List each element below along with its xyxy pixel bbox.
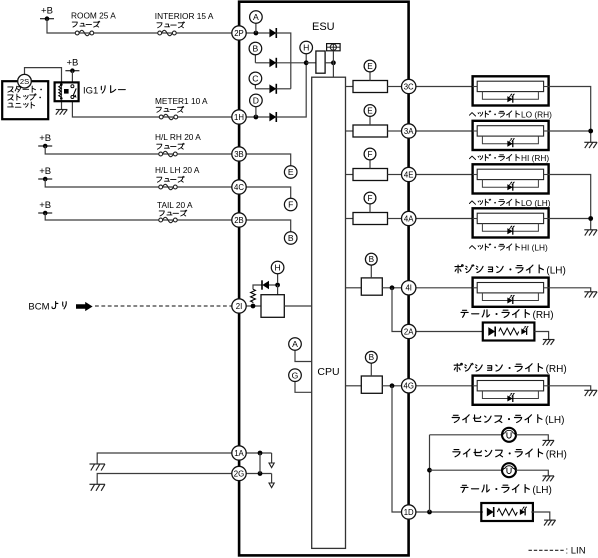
svg-text:+B: +B [39, 133, 51, 144]
svg-text:3B: 3B [234, 150, 244, 159]
svg-text:2P: 2P [234, 29, 244, 38]
svg-text:INTERIOR 15 A: INTERIOR 15 A [155, 11, 214, 21]
svg-text:H/L LH 20 A: H/L LH 20 A [155, 165, 200, 175]
svg-text:3C: 3C [404, 82, 414, 91]
svg-text:METER1 10 A: METER1 10 A [155, 96, 208, 106]
svg-text:2B: 2B [234, 216, 244, 225]
svg-text:F: F [288, 200, 293, 210]
svg-text:BCM: BCM [28, 301, 49, 312]
svg-text:F: F [367, 194, 372, 203]
svg-text:(RH): (RH) [546, 449, 567, 460]
svg-text:LO (RH): LO (RH) [521, 110, 552, 120]
svg-text:1D: 1D [404, 508, 414, 517]
svg-text:H: H [303, 43, 309, 53]
svg-text:+B: +B [39, 200, 51, 211]
svg-text:: LIN: : LIN [566, 545, 586, 556]
svg-text:+B: +B [41, 6, 53, 17]
svg-text:ESU: ESU [312, 21, 335, 33]
svg-text:3A: 3A [404, 127, 414, 136]
svg-text:A: A [253, 12, 259, 22]
svg-text:4G: 4G [403, 382, 413, 391]
svg-text:4I: 4I [405, 284, 412, 293]
svg-text:D: D [253, 96, 259, 106]
svg-text:B: B [253, 44, 259, 54]
svg-text:ROOM 25 A: ROOM 25 A [71, 10, 116, 20]
svg-text:E: E [288, 167, 294, 177]
svg-text:LO (LH): LO (LH) [521, 198, 551, 208]
svg-text:HI (RH): HI (RH) [521, 153, 549, 163]
svg-text:B: B [369, 353, 375, 362]
svg-text:(RH): (RH) [533, 310, 554, 321]
svg-text:B: B [288, 233, 294, 243]
svg-text:2G: 2G [234, 469, 244, 478]
svg-text:1H: 1H [234, 113, 244, 122]
svg-text:B: B [369, 255, 375, 264]
svg-text:4E: 4E [404, 170, 414, 179]
svg-text:2I: 2I [236, 302, 243, 311]
svg-text:H: H [274, 263, 280, 273]
svg-text:IG1: IG1 [83, 86, 98, 97]
svg-text:C: C [252, 74, 258, 84]
svg-text:4C: 4C [234, 183, 244, 192]
svg-text:(LH): (LH) [532, 485, 551, 496]
svg-text:CPU: CPU [317, 366, 339, 378]
svg-text:E: E [367, 106, 373, 115]
svg-text:HI (LH): HI (LH) [521, 243, 548, 253]
svg-text:(LH): (LH) [545, 415, 564, 426]
svg-text:H/L RH 20 A: H/L RH 20 A [155, 132, 201, 142]
svg-text:1A: 1A [234, 449, 244, 458]
svg-text:+B: +B [39, 166, 51, 177]
svg-text:F: F [367, 150, 372, 159]
svg-text:A: A [292, 339, 298, 349]
svg-text:2A: 2A [404, 327, 414, 336]
svg-text:+B: +B [66, 58, 78, 69]
svg-text:(LH): (LH) [546, 265, 565, 276]
svg-text:G: G [292, 370, 299, 380]
svg-text:4A: 4A [404, 214, 414, 223]
svg-text:(RH): (RH) [546, 364, 567, 375]
svg-text:TAIL 20 A: TAIL 20 A [157, 200, 193, 210]
svg-text:2S: 2S [20, 77, 29, 86]
svg-text:E: E [367, 62, 373, 71]
